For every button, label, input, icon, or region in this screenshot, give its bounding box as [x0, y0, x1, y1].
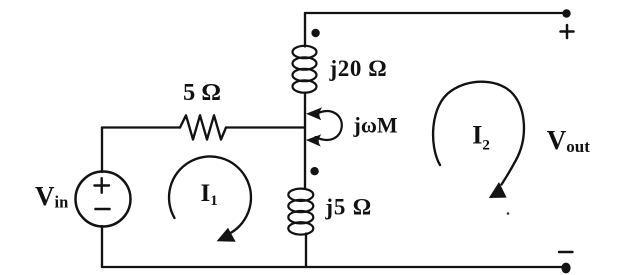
svg-text:j5 Ω: j5 Ω: [324, 195, 372, 220]
svg-text:5 Ω: 5 Ω: [183, 79, 221, 106]
svg-text:j20 Ω: j20 Ω: [329, 56, 388, 81]
svg-text:jωM: jωM: [353, 113, 398, 138]
